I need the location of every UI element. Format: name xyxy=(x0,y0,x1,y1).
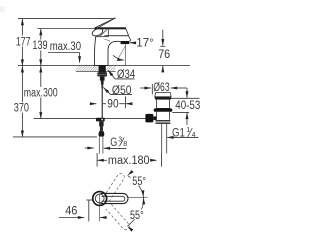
faucet body outer circle xyxy=(93,192,107,206)
svg-text:46: 46 xyxy=(65,206,77,218)
spout nose slant xyxy=(126,29,129,36)
spout top edge xyxy=(104,35,128,37)
svg-text:40-53: 40-53 xyxy=(175,100,200,112)
lever base right edge xyxy=(107,29,109,36)
Ø63 dimension xyxy=(140,87,151,89)
faucet body inner circle xyxy=(95,194,104,203)
17 degree leader arrow xyxy=(130,42,135,44)
body shoulder line xyxy=(96,36,109,38)
svg-text:G: G xyxy=(110,137,117,149)
svg-text:Ø34: Ø34 xyxy=(117,69,136,81)
0-degree reference line to arc xyxy=(128,196,147,199)
dimension 177 line with arrows xyxy=(21,19,23,36)
Ø34 label leader xyxy=(115,78,135,80)
horseshoe washer xyxy=(97,72,107,76)
arc arrowheads xyxy=(126,170,145,232)
svg-text:4: 4 xyxy=(192,132,196,139)
extension line bottom of hose (370 ref) xyxy=(13,136,97,138)
dimension 370 line with arrows xyxy=(21,66,23,102)
17 degree stream line xyxy=(117,46,125,61)
dashed handle rotated up 55 xyxy=(104,174,125,201)
pop-up rod knob xyxy=(145,114,153,123)
dashed handle rotated down 55 xyxy=(106,204,129,229)
waste threads xyxy=(156,120,171,124)
aerator xyxy=(121,41,130,44)
lever seam xyxy=(100,30,107,37)
deck bottom line xyxy=(76,70,115,72)
Ø50 label leader xyxy=(111,94,132,96)
dimension 139 line with arrows xyxy=(40,29,42,40)
deck cross-section hatching xyxy=(75,66,116,71)
svg-text:90: 90 xyxy=(107,98,118,110)
pull rod / axis xyxy=(101,80,104,84)
svg-text:139: 139 xyxy=(32,40,47,52)
faint corner artifact xyxy=(0,6,5,13)
lever front blob xyxy=(91,27,104,38)
hose end flare xyxy=(98,131,104,137)
svg-text:8: 8 xyxy=(123,141,127,148)
46 extension line xyxy=(88,200,90,221)
17 degree arc arrow xyxy=(113,55,124,60)
extension line deck top xyxy=(18,65,190,67)
G3/8 label arrows and underline xyxy=(85,147,94,149)
waste o-ring xyxy=(154,108,173,111)
spout tip face xyxy=(129,36,131,41)
svg-text:55°: 55° xyxy=(130,210,144,222)
76 dimension xyxy=(162,30,164,46)
handle outer capsule xyxy=(101,193,129,203)
90 dimension xyxy=(90,103,96,105)
faucet body outline xyxy=(94,37,120,66)
spout outlet vertical reference line xyxy=(125,44,127,65)
pop-up waste plug cap xyxy=(155,93,172,97)
plug cap dark rim xyxy=(155,97,172,100)
svg-text:177: 177 xyxy=(16,36,31,48)
svg-text:Ø63: Ø63 xyxy=(153,82,169,94)
dimension max.300 line with arrows xyxy=(40,66,42,87)
waste body xyxy=(157,112,170,120)
lever wedge handle xyxy=(95,18,115,28)
lever top plate (dark bar) xyxy=(95,27,127,29)
spout underside inner line xyxy=(104,40,110,42)
G3/8 connector xyxy=(99,121,103,126)
reference stub on left of circle xyxy=(86,199,93,201)
supply / pop-up rod horizontal line xyxy=(34,118,146,120)
waste neck xyxy=(157,100,170,109)
supply tee junction xyxy=(96,118,105,122)
svg-text:max.300: max.300 xyxy=(24,87,58,99)
label background 55deg top xyxy=(131,176,147,186)
G1 1/4 label underline and leader xyxy=(172,136,199,138)
label background 55deg bottom xyxy=(129,209,145,219)
extension line top of faucet xyxy=(18,18,115,20)
svg-text:max.180: max.180 xyxy=(108,155,150,167)
waste tailpipe xyxy=(161,124,163,154)
axis vertical centerline xyxy=(99,194,101,222)
max.30 label underline and leader arrow to deck xyxy=(48,52,80,54)
svg-text:17°: 17° xyxy=(136,38,154,50)
svg-text:76: 76 xyxy=(158,49,170,61)
angle arc xyxy=(127,175,143,226)
extension line spout top (139) xyxy=(37,28,95,30)
svg-text:max.30: max.30 xyxy=(50,41,81,53)
mounting shank through deck xyxy=(99,65,106,72)
max.180 dimension xyxy=(96,153,98,167)
46 dimension arrows xyxy=(59,217,84,219)
svg-text:G1: G1 xyxy=(172,128,185,140)
svg-text:55°: 55° xyxy=(132,176,146,188)
handle inner capsule xyxy=(102,196,125,201)
mounting nut xyxy=(100,76,105,80)
svg-text:370: 370 xyxy=(14,103,29,115)
tee junction highlight xyxy=(101,119,103,121)
40-53 dimension xyxy=(186,88,188,98)
svg-text:Ø50: Ø50 xyxy=(112,85,132,97)
flexible hose lines xyxy=(98,137,100,154)
